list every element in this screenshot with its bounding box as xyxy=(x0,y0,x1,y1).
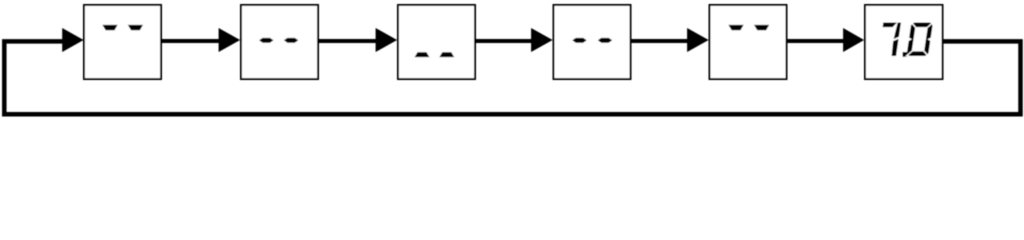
segment display stage1 digit1 top segment xyxy=(102,25,117,30)
box stage 5 xyxy=(710,5,787,79)
wire stage2 to stage3 xyxy=(319,39,377,43)
wire stage3 to stage4 xyxy=(476,39,533,43)
box stage 3 xyxy=(398,5,475,79)
segment display stage2 digit1 middle segment xyxy=(259,38,273,43)
segment display stage4 digit1 middle segment xyxy=(572,38,586,43)
digit 7 of value 7.0 xyxy=(878,23,901,57)
segment display stage3 digit1 bottom segment xyxy=(415,52,430,57)
segment display stage5 digit2 top segment xyxy=(754,25,769,30)
box stage 4 xyxy=(554,5,631,79)
segment display stage2 digit2 middle segment xyxy=(284,38,298,43)
box stage 6 xyxy=(865,5,943,79)
arrowhead into stage 5 xyxy=(687,28,709,52)
box stage 1 xyxy=(84,5,161,79)
arrowhead into stage 6 xyxy=(843,28,864,52)
segment display stage5 digit1 top segment xyxy=(728,25,743,30)
segment display stage3 digit2 bottom segment xyxy=(439,52,454,57)
wire stage5 to stage6 xyxy=(788,39,845,43)
wire stage4 to stage5 xyxy=(632,39,689,43)
arrowhead into stage 1 xyxy=(62,28,83,52)
decimal point of value 7.0 xyxy=(903,52,908,57)
wire stage1 to stage2 xyxy=(162,39,220,43)
arrowhead into stage 3 xyxy=(376,28,398,52)
wire feedback loop: from stage 6 output right, down, along bottom, up left side xyxy=(4,41,1020,114)
arrowhead into stage 2 xyxy=(219,28,241,52)
segment display stage4 digit2 middle segment xyxy=(598,38,612,43)
digit 0 of value 7.0 xyxy=(906,22,934,57)
arrowhead into stage 4 xyxy=(531,28,553,52)
box stage 2 xyxy=(241,5,318,79)
segment display stage1 digit2 top segment xyxy=(128,25,143,30)
